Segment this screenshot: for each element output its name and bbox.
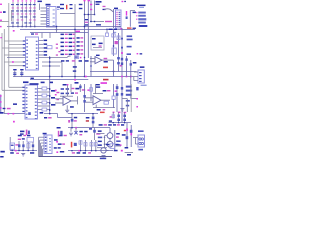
ground x122	[120, 109, 124, 112]
red dot	[124, 130, 126, 132]
component row grid x60-74	[61, 34, 64, 36]
diode row 1	[61, 88, 64, 90]
wire vertical	[90, 1, 92, 22]
power bus	[10, 150, 37, 152]
wire	[131, 98, 137, 100]
verticals right mid	[126, 56, 128, 77]
X1 label	[44, 117, 47, 119]
net label row 1	[136, 12, 137, 13]
U5 feedback wire	[60, 95, 73, 97]
vertical x72 r/c	[71, 114, 73, 128]
wire	[74, 4, 76, 80]
verticals x127 x131	[126, 123, 128, 147]
wire vertical x113.5 mid	[113, 84, 115, 96]
connector J2 box	[44, 135, 52, 154]
wire vertical x118.5	[118, 33, 120, 56]
wire drop	[56, 27, 58, 34]
wire y147.7	[97, 147, 107, 149]
bridge box	[27, 137, 34, 142]
row labels right of U2	[44, 40, 48, 42]
label net name	[96, 1, 102, 3]
wire verticals mid	[61, 63, 63, 77]
net rows right	[126, 86, 132, 88]
net label row 2	[136, 15, 137, 16]
wire top stub	[0, 20, 9, 22]
node labels top	[84, 0, 86, 1]
net label row 3	[136, 19, 137, 20]
labels under U2 rows	[61, 60, 64, 62]
U1 refdes label	[46, 4, 51, 6]
U2 right pin rows	[39, 40, 44, 42]
label row y124.5	[99, 124, 103, 126]
transistor Q2	[107, 141, 113, 147]
J2 right labels	[54, 139, 58, 141]
op-amp U6	[85, 96, 110, 105]
components on x122	[121, 38, 123, 40]
label	[57, 127, 61, 129]
wire	[7, 57, 26, 59]
label	[105, 21, 112, 22]
cap C15	[20, 131, 24, 133]
wire y127.7	[68, 127, 110, 129]
wire y113.7 mid	[44, 113, 58, 115]
wire vertical	[90, 56, 92, 77]
wire verticals above opamp	[67, 84, 69, 96]
bus y150.7	[68, 150, 109, 152]
label PC	[40, 112, 44, 114]
labels right top	[109, 29, 113, 30]
wire vertical x122 long	[121, 28, 123, 123]
caps row	[18, 144, 20, 147]
wire right	[106, 150, 113, 152]
bus junctions	[61, 76, 62, 77]
component row grid x76-83	[77, 37, 80, 39]
label left of bus	[0, 156, 3, 158]
wire	[85, 14, 95, 16]
junction dots x49.7	[49, 88, 50, 89]
wire vertical bus 2	[87, 1, 89, 59]
connector J1 box	[116, 10, 122, 28]
wire below U6	[93, 107, 115, 109]
relay label above	[138, 130, 144, 132]
power block top labels	[18, 135, 22, 137]
wire	[129, 11, 131, 27]
power verticals	[9, 137, 11, 151]
components x113-125 y114-122	[112, 112, 114, 118]
wire	[90, 21, 104, 23]
power block bottom labels	[0, 151, 4, 153]
wire stubs U1 left	[39, 4, 41, 11]
bus labels	[31, 33, 34, 34]
wire y113.7	[0, 112, 4, 114]
transistor Q3	[101, 148, 106, 153]
U3 left pin arrows	[22, 87, 24, 88]
U2 pins left wires	[4, 40, 25, 42]
transistor Q1	[107, 133, 113, 139]
wire left bus B	[3, 29, 5, 114]
capacitor C5 labels	[103, 6, 106, 7]
bus mid B	[30, 79, 88, 81]
R labels	[103, 90, 107, 92]
J2 top label	[43, 133, 47, 135]
wire	[42, 61, 62, 63]
X2 label	[13, 103, 17, 105]
wire	[60, 13, 75, 15]
resistor R4 labels	[85, 19, 88, 20]
vertical x93 r/c	[92, 114, 94, 128]
right of Q	[114, 130, 116, 151]
red connector marks	[66, 5, 67, 10]
K1 pin wires	[134, 71, 138, 73]
wire vertical x91	[90, 84, 92, 101]
oscillator Y1 box	[91, 36, 104, 50]
U6 out component	[104, 101, 108, 104]
U2 pin arrows	[23, 40, 25, 41]
U5 labels	[73, 66, 77, 68]
caps bottom row	[80, 140, 82, 151]
wire	[11, 10, 13, 21]
wire vertical	[94, 1, 96, 15]
magenta node	[0, 26, 2, 27]
left edge stub wires	[0, 95, 2, 113]
transistor Q4 cluster	[70, 128, 72, 132]
bus +5V	[30, 32, 88, 34]
wire L to bottom right	[122, 98, 127, 100]
component box x112-119	[112, 48, 116, 54]
wire hook to transistor	[104, 9, 114, 12]
op-amp U5	[55, 97, 78, 106]
resistor boxes right of U3	[42, 87, 47, 90]
PORTA label	[139, 25, 148, 27]
left labels	[98, 130, 102, 132]
red label	[100, 112, 105, 114]
wire left bus C	[1, 33, 3, 90]
relay label right	[141, 85, 147, 86]
capacitor C3	[13, 69, 16, 77]
wire y113.7 right	[68, 113, 98, 115]
capacitor C1 area labels	[60, 4, 64, 5]
IC U1 box	[47, 7, 57, 28]
capacitor C4	[20, 69, 23, 77]
magenta node y62	[12, 61, 14, 63]
resistor R10	[47, 46, 52, 49]
J2 pin wires nested	[39, 136, 44, 138]
small box T	[110, 144, 115, 149]
wire staircase	[109, 128, 111, 133]
net label row 4	[138, 22, 146, 24]
driver K1 box	[138, 70, 144, 83]
x80 parts	[79, 84, 81, 92]
bus mid C	[90, 71, 137, 73]
pull-up resistor columns RN1	[11, 0, 14, 27]
op-amp U4	[90, 57, 114, 64]
wire vertical x113.5	[113, 29, 115, 56]
U2 label below	[23, 81, 29, 83]
relay wires	[133, 137, 138, 139]
bus mid A	[13, 76, 133, 78]
crystal X1 box	[75, 56, 79, 59]
U1 pins left	[41, 7, 47, 9]
net rows x127-133	[127, 35, 133, 37]
node	[80, 57, 82, 58]
bus VCC	[7, 26, 121, 28]
regulator VR1 box	[10, 143, 15, 149]
relay K1 box	[138, 135, 145, 147]
U3 left pin wires	[9, 86, 25, 88]
left edge net labels	[0, 4, 2, 5]
U3 right rows	[38, 88, 43, 90]
red labels +12V	[103, 67, 108, 69]
wire vertical	[113, 9, 115, 28]
vertical x131	[130, 84, 132, 112]
red cap column	[71, 142, 73, 148]
Q base wires	[105, 135, 108, 137]
labels	[96, 84, 100, 85]
magenta dot	[13, 121, 15, 123]
junctions x50	[49, 56, 51, 114]
U1 right labels	[57, 6, 60, 7]
component on x113.5	[112, 34, 115, 37]
wire left bus A	[8, 3, 10, 87]
bottom bus	[39, 156, 112, 158]
wire vertical x118.5 lower	[118, 56, 120, 71]
component x94.5	[94, 128, 96, 141]
bottom right labels	[125, 147, 129, 149]
K1 label	[140, 66, 145, 68]
capacitor C7 magenta	[126, 11, 127, 16]
IC U3 box	[25, 85, 38, 119]
left dots	[55, 90, 57, 92]
relay label below	[138, 149, 143, 151]
wire y122.7	[109, 122, 132, 124]
U3 top label	[30, 83, 39, 85]
wire	[106, 29, 108, 33]
J1 top label	[114, 8, 118, 10]
wire vertical bus 1	[84, 1, 86, 77]
resistor R3 labels	[79, 4, 83, 5]
U5 below parts	[66, 105, 68, 110]
bus GND	[20, 29, 135, 31]
labels right rows	[51, 90, 55, 92]
labels below	[72, 152, 75, 153]
labels below bus	[41, 82, 45, 84]
IC U2 box	[26, 37, 39, 70]
U4 labels	[96, 55, 100, 56]
diode row 2	[61, 93, 64, 95]
vertical x117 parts	[116, 84, 118, 112]
net label header	[137, 5, 146, 7]
